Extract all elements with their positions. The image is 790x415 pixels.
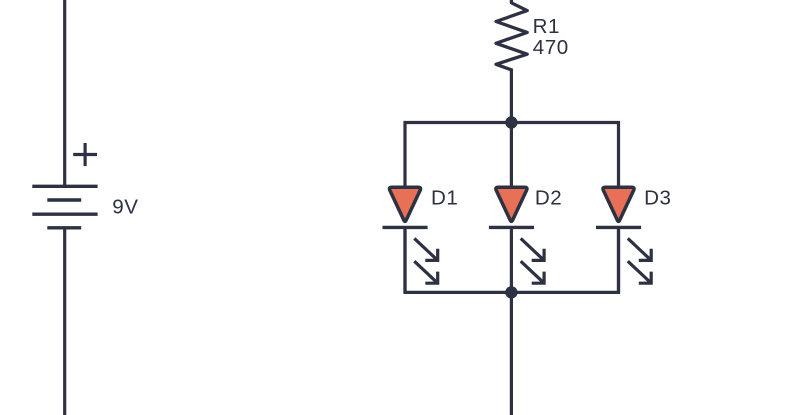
LED D3 light arrow 2 [628,261,651,283]
wire: LED D3 cathode to bottom rail [617,227,620,292]
wire: bottom junction to bottom edge [510,292,513,415]
wire: top junction to LED D2 [510,123,513,188]
svg-text:D3: D3 [644,186,671,209]
LED D2 light arrow 2 [521,261,544,283]
wire: LED D1 cathode to bottom rail [403,227,406,292]
wire: resistor R1 to top junction [510,69,513,123]
wire: top lead to battery positive plate [63,0,66,186]
LED D1 cathode bar [383,226,428,229]
svg-text:470: 470 [533,36,569,59]
LED D3 triangle [603,187,634,221]
LED D1 light arrow 2 [414,261,437,283]
wire: battery negative plate to bottom edge [63,228,66,415]
battery plus sign [73,143,97,166]
battery V1 plates [32,186,97,228]
junction node: bottom rail [505,286,517,298]
wire: LED D2 cathode to bottom junction [510,227,513,292]
LED D1 triangle [389,187,420,221]
svg-text:D1: D1 [431,186,458,209]
LED D3 light arrow 1 [628,238,651,260]
resistor R1 (zigzag, top lead cut off at canvas top) [496,0,527,70]
LED D2 light arrow 1 [521,238,544,260]
LED D2 triangle [496,187,527,221]
wire: top rail with corner drops to D1 and D3 [405,123,619,188]
svg-text:9V: 9V [112,196,138,219]
wire: bottom rail with corner rises to D1 and D3 [405,227,619,292]
svg-text:R1: R1 [533,15,560,38]
LED D2 cathode bar [489,226,534,229]
junction node: top rail [505,116,517,128]
LED D3 cathode bar [596,226,641,229]
LED D1 light arrow 1 [414,238,437,260]
svg-text:D2: D2 [535,186,562,209]
